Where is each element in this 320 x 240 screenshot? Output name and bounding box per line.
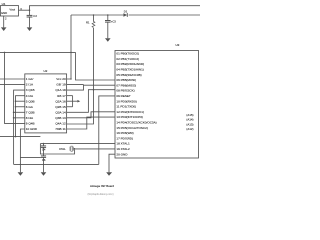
crystal node circle [74,148,76,150]
svg-text:I1B 17: I1B 17 [57,94,66,98]
svg-text:(A12): (A12) [186,127,193,131]
svg-text:Atmega ISP Board: Atmega ISP Board [90,184,114,188]
svg-text:GND: GND [1,11,7,15]
resistor R1 [93,14,95,16]
svg-text:10 PD0(RXD0): 10 PD0(RXD0) [116,99,136,103]
wire to U3 pin6 MOSI [76,52,116,80]
svg-text:C6: C6 [42,158,46,162]
svg-text:Q2B 15: Q2B 15 [55,105,66,109]
svg-text:03 PB2(RXD1/AIN0): 03 PB2(RXD1/AIN0) [116,62,144,66]
wire U1 Vout to node [19,9,30,11]
wire to crystal block [0,136,40,138]
wire U2 pin4 down [16,96,25,137]
microcontroller U3 [115,51,199,159]
svg-text:17 PD7(RD): 17 PD7(RD) [116,136,133,140]
capacitor C3 [107,14,109,16]
ground below U1 [1,27,7,31]
svg-text:15 PD5(OC1A/TOSC2): 15 PD5(OC1A/TOSC2) [116,126,147,130]
wire XTAL1 [40,143,115,145]
wire XTAL2 [76,148,115,150]
wire to U3 pin8 and down to U2 pin14 [67,90,115,113]
svg-text:6 GA: 6 GA [26,105,34,109]
wire crystal frame [40,144,74,154]
wire U2 gnd to C6 bottom [20,156,41,158]
svg-text:05 PB4(SS/OC3B): 05 PB4(SS/OC3B) [116,73,141,77]
stub U2 pin5 [16,100,25,102]
svg-text:(A15): (A15) [186,113,193,117]
svg-text:(A13): (A13) [186,122,193,126]
svg-text:11 PD1(TXD0): 11 PD1(TXD0) [116,105,136,109]
svg-text:GB' 19: GB' 19 [56,83,66,87]
capacitor C4 [43,144,45,146]
junction at U1 output [29,9,31,11]
wire to U2 pin9 [5,52,25,123]
svg-text:01 PB0(T0/OC0): 01 PB0(T0/OC0) [116,52,139,56]
bus tie U2 pins 17-15 [67,95,73,97]
svg-text:16 PD6(WR): 16 PD6(WR) [116,131,133,135]
wire U3 pin20 GND [109,154,115,172]
svg-text:08 PB7(SCK): 08 PB7(SCK) [116,89,134,93]
svg-text:C2: C2 [33,14,37,18]
wire U2 pin3 to ground rail [14,90,25,164]
ground rail wire [14,163,99,165]
svg-text:Vout: Vout [9,8,15,12]
stub U2 pin7 [14,111,25,113]
wire VCC to U2 pin20 [67,15,71,79]
svg-text:12 PD2(INT0/XCK1): 12 PD2(INT0/XCK1) [116,110,144,114]
svg-text:(A14): (A14) [186,118,193,122]
resistor R1 lead down to U2 pin12 [67,28,94,124]
ground below U3 [106,172,112,176]
svg-text:2: 2 [5,17,7,21]
svg-text:+C3: +C3 [111,20,117,24]
svg-text:C4: C4 [42,148,46,152]
stub U2 pin8 [14,117,25,119]
svg-text:Vcc 20: Vcc 20 [56,77,66,81]
svg-text:(http//tapilo.ifatony.com/): (http//tapilo.ifatony.com/) [88,193,114,196]
wire U3 RESET to ground rail [99,96,115,164]
VCC rail wire lower [71,14,123,16]
svg-text:XTAL: XTAL [59,147,66,151]
capacitor C6 [43,154,45,156]
svg-text:Q4A 12: Q4A 12 [55,122,66,126]
svg-text:D1: D1 [124,9,128,13]
wire U2 pin11 to U3 pin13 [67,117,115,129]
voltage regulator U1 [0,6,18,16]
wire U1 pin2 down [3,16,5,27]
VCC rail wire upper [30,6,201,16]
svg-text:Q3A 14: Q3A 14 [55,110,66,114]
junction R1 line [93,89,95,91]
wire U2 pin10 GND down [20,129,24,172]
capacitor C2 [27,14,33,16]
svg-text:20 GND: 20 GND [116,152,128,156]
svg-text:2 I1A: 2 I1A [26,83,34,87]
ground below C2 [27,27,33,31]
wire rail after diode [129,14,200,16]
svg-text:U1: U1 [2,2,6,6]
ground symbol under C6 [41,172,47,176]
stub U2 pin6 [16,106,25,108]
svg-text:7 Q3B: 7 Q3B [26,110,35,114]
svg-text:Q3B 13: Q3B 13 [55,116,66,120]
junction VCC drop [70,52,72,54]
svg-text:9 Q4B: 9 Q4B [26,122,35,126]
wire to U2 pin2 [0,84,25,86]
svg-text:04 PB3(TXD1/AIN1): 04 PB3(TXD1/AIN1) [116,68,143,72]
svg-text:4 I2A: 4 I2A [26,94,34,98]
svg-text:07 PB6(MISO): 07 PB6(MISO) [116,83,136,87]
wire to U2 pin1 [0,78,25,80]
svg-text:H4B 11: H4B 11 [56,127,66,131]
svg-text:06 PB5(MOSI): 06 PB5(MOSI) [116,78,136,82]
wire U2 pin13 to U3 pin12 [67,112,115,118]
svg-text:02 PB1(T1/OC2): 02 PB1(T1/OC2) [116,57,139,61]
svg-text:18 XTAL1: 18 XTAL1 [116,142,130,146]
svg-text:8 I4A: 8 I4A [26,116,34,120]
wire VCC branch horizontal [0,51,76,53]
ground symbol left [18,172,24,176]
svg-text:R1: R1 [86,20,90,24]
svg-text:Q1A 18: Q1A 18 [55,88,66,92]
svg-text:3 Q1B: 3 Q1B [26,88,35,92]
svg-text:14 PD4(TOSC1/XCK0/OC3A): 14 PD4(TOSC1/XCK0/OC3A) [116,121,156,125]
buffer IC U2 [25,74,67,133]
net arrow at U2 pin16 [73,100,78,102]
svg-text:U3: U3 [176,43,180,47]
wire U2 pin19/18 jog to U3 pin7 [67,84,84,86]
svg-text:1 GA': 1 GA' [26,77,34,81]
svg-text:19 XTAL2: 19 XTAL2 [116,147,130,151]
svg-text:U2: U2 [44,69,48,73]
svg-text:Q2A 16: Q2A 16 [55,99,66,103]
svg-text:10 GND: 10 GND [26,127,38,131]
svg-text:09 RESET: 09 RESET [116,94,131,98]
diode D1 [123,13,127,17]
svg-text:13 PD3(INT1/ICP3): 13 PD3(INT1/ICP3) [116,115,142,119]
svg-text:5 Q0B: 5 Q0B [26,99,35,103]
ground below C3 [105,38,111,42]
